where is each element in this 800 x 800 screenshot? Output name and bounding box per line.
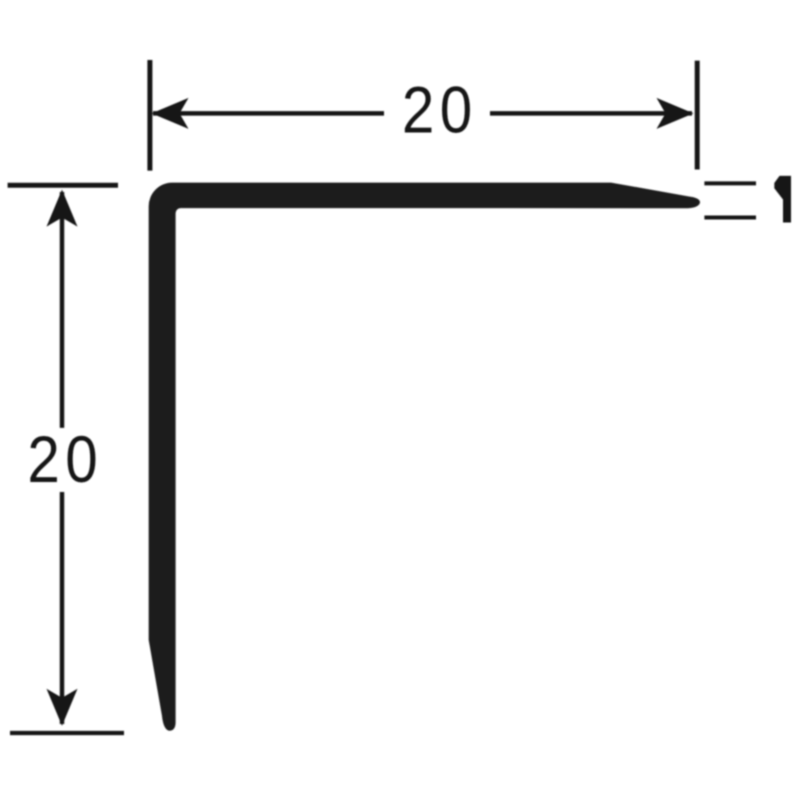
extension line left vertical (top dimension) (147, 60, 152, 171)
arrowhead left-up (47, 190, 78, 227)
dimension line top, left segment (153, 111, 384, 116)
dimension line left, upper segment (60, 192, 65, 428)
extension line right vertical (top dimension) (695, 61, 700, 170)
arrowhead top-left (152, 98, 189, 129)
arrowhead top-right (657, 98, 694, 129)
dimension line left, lower segment (60, 492, 65, 724)
angle profile cross-section (20x20x1 L-shape) (149, 183, 700, 731)
svg-text:20: 20 (402, 74, 478, 147)
extension line thickness upper (704, 181, 756, 185)
label 1 (thickness) (774, 176, 791, 223)
dimension line top, right segment (490, 111, 692, 116)
extension line bottom horizontal (left dimension) (10, 731, 124, 735)
svg-text:20: 20 (27, 424, 103, 497)
extension line top horizontal (left dimension) (8, 183, 118, 188)
arrowhead left-down (47, 689, 78, 726)
extension line thickness lower (704, 216, 756, 220)
